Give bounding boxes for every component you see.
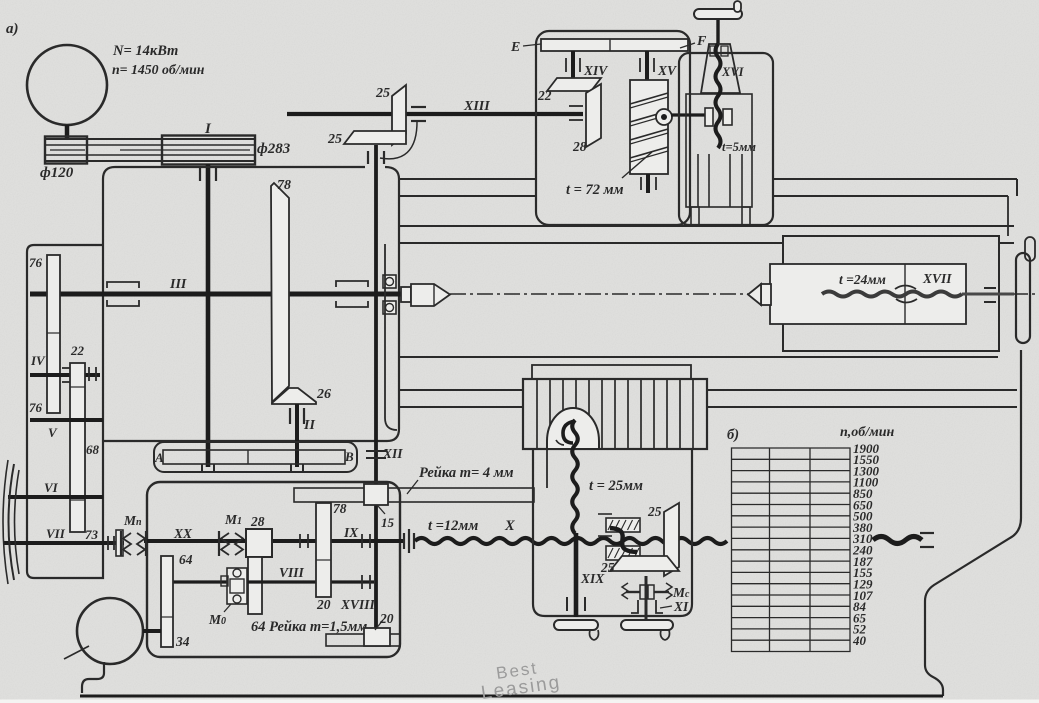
paper edge strip [0, 700, 1039, 703]
svg-text:34: 34 [175, 634, 190, 649]
shaft IV [30, 373, 100, 377]
svg-text:E: E [510, 40, 520, 55]
speed table grid [732, 448, 851, 652]
svg-text:64: 64 [179, 552, 193, 567]
gear block 22/68/73 [70, 363, 85, 532]
svg-text:68: 68 [86, 442, 100, 457]
svg-text:XIV: XIV [583, 63, 608, 78]
svg-text:XII: XII [382, 446, 403, 461]
half nut upper [606, 518, 640, 532]
svg-text:25: 25 [327, 132, 342, 147]
clutch Mp [120, 531, 122, 556]
shaft XI vertical [645, 576, 648, 620]
svg-text:n= 1450 об/мин: n= 1450 об/мин [112, 62, 205, 77]
pulley d120 [45, 137, 87, 164]
svg-text:I: I [204, 121, 212, 137]
gear block 76/76 [47, 255, 60, 413]
bed rail mid1 [399, 225, 1014, 227]
guide stadium right [1025, 237, 1035, 261]
shaft XX / IX horizontal [144, 539, 404, 543]
svg-text:N= 14кВт: N= 14кВт [112, 43, 178, 59]
vertical shaft from bevels down to apron [374, 145, 378, 634]
svg-text:XVII: XVII [922, 271, 952, 286]
svg-text:t = 72 мм: t = 72 мм [566, 182, 624, 198]
tailstock handwheel [1016, 253, 1030, 343]
shaft VII [4, 541, 124, 545]
svg-text:78: 78 [333, 501, 347, 516]
bevel gear 25 upper [392, 85, 406, 145]
svg-text:А: А [154, 450, 164, 465]
belt drive band [45, 139, 255, 161]
svg-text:а): а) [6, 21, 19, 37]
gear block 64/34 [161, 556, 173, 647]
tailstock quill box [770, 264, 966, 324]
bed right outline [925, 350, 1021, 696]
svg-text:28: 28 [250, 514, 265, 529]
pulley d283 [162, 136, 255, 165]
svg-text:XX: XX [173, 526, 193, 541]
svg-text:22: 22 [537, 88, 552, 103]
shaft XIII horizontal [287, 112, 583, 116]
gear block on shaft VIII [248, 557, 262, 614]
worm t=72 [630, 80, 668, 174]
shaft XIV [571, 51, 575, 80]
screw XVI wavy [716, 44, 721, 148]
svg-text:XV: XV [657, 63, 677, 78]
bar E [541, 39, 688, 51]
bevel gear 25 horizontal (apron) [610, 556, 679, 571]
gear pair on screw XVI [705, 108, 713, 126]
XI guide marks [631, 600, 638, 613]
overload clutch M0 [227, 568, 247, 604]
svg-text:26: 26 [316, 387, 331, 402]
norton box housing E [536, 31, 690, 225]
bevel gear 22 [547, 78, 601, 91]
motor M1 (main drive) [27, 45, 107, 125]
feed motor [77, 598, 143, 664]
bed rail low3 [399, 406, 523, 408]
shaft III (spindle) [30, 292, 402, 297]
clutch Mc [640, 585, 646, 599]
speed gearbox left housing [27, 245, 103, 578]
shaft XV [645, 51, 649, 80]
bevel gear 26 [272, 388, 316, 404]
rack pinion foot right [621, 620, 673, 630]
bevel gear 25 lower [344, 131, 406, 144]
gear block 28 [246, 529, 272, 557]
shaft XV lower stub [646, 174, 650, 193]
svg-text:n,об/мин: n,об/мин [840, 425, 895, 440]
svg-text:б): б) [727, 427, 739, 443]
bevel gear 28 [586, 84, 601, 147]
bevel gear 25 vertical (apron) [664, 503, 679, 576]
change gear bracket A-B [154, 442, 357, 472]
shaft XIX [574, 533, 579, 617]
svg-text:28: 28 [572, 139, 587, 154]
svg-text:XI: XI [673, 599, 689, 614]
svg-text:II: II [303, 418, 315, 433]
svg-text:40: 40 [852, 633, 867, 648]
rack pinion foot left [554, 620, 598, 630]
svg-text:ф283: ф283 [257, 141, 291, 157]
coupling of leadscrew X [403, 533, 405, 549]
headstock gearbox housing [103, 167, 399, 441]
svg-text:73: 73 [85, 527, 99, 542]
leadscrew box housing [679, 53, 773, 225]
tailstock center [761, 284, 771, 305]
cross feed screw t=25 wavy [572, 420, 578, 533]
shaft II [295, 404, 299, 467]
svg-text:76: 76 [29, 255, 43, 270]
box legs [691, 207, 699, 225]
spindle bearing upper [383, 275, 396, 288]
carriage nut dome [547, 408, 599, 449]
bottom rack bar [326, 634, 400, 646]
leadscrew X wavy [415, 538, 727, 544]
svg-text:IV: IV [30, 353, 46, 368]
svg-text:XIII: XIII [463, 99, 490, 114]
shaft V [30, 418, 103, 422]
svg-text:В: В [344, 449, 354, 464]
svg-text:X: X [504, 518, 515, 534]
left support bracket arcs [9, 464, 15, 580]
rotation arrows [895, 286, 916, 290]
svg-text:V: V [48, 425, 58, 440]
svg-text:t =12мм: t =12мм [428, 518, 478, 534]
svg-text:VII: VII [46, 526, 66, 541]
svg-text:XVI: XVI [721, 65, 745, 79]
shaft from worm wheel [671, 113, 711, 116]
svg-text:25: 25 [647, 504, 662, 519]
leadscrew X after table [873, 537, 922, 544]
svg-text:25: 25 [375, 86, 390, 101]
bed rail mid2 [399, 242, 783, 244]
svg-text:t =24мм: t =24мм [839, 272, 886, 287]
center line between centers [450, 293, 750, 295]
svg-text:78: 78 [277, 178, 291, 193]
coupling marks on shaft XII [366, 450, 386, 452]
svg-text:25: 25 [600, 560, 615, 575]
machine base bottom [82, 662, 104, 693]
half nut lower [606, 546, 640, 560]
bearing bracket left pair [107, 282, 139, 288]
bed rail low2 [399, 389, 523, 391]
gear 78 on spindle [271, 183, 289, 402]
svg-text:t = 25мм: t = 25мм [589, 478, 643, 494]
svg-text:76: 76 [29, 400, 43, 415]
bed rail top1 [399, 178, 536, 180]
svg-text:20: 20 [379, 611, 394, 626]
svg-text:Рейка m= 4 мм: Рейка m= 4 мм [419, 465, 514, 481]
svg-text:F: F [696, 34, 707, 49]
worm wheel [656, 109, 672, 125]
svg-text:VI: VI [44, 480, 59, 495]
bed rail low1 [399, 356, 998, 358]
handle [716, 20, 719, 44]
svg-text:64 Рейка m=1,5мм: 64 Рейка m=1,5мм [251, 619, 367, 635]
rack slider 15 [364, 484, 388, 505]
bearing bracket right pair [336, 281, 368, 287]
svg-text:ф120: ф120 [40, 165, 74, 181]
gear block 78/20 on shaft IX [316, 503, 331, 597]
rack m=4mm bar [294, 488, 534, 502]
tailstock screw wavy [822, 292, 962, 297]
feed gearbox housing [147, 482, 400, 657]
svg-text:15: 15 [381, 515, 395, 530]
svg-text:20: 20 [316, 597, 331, 612]
shaft VI [8, 495, 103, 499]
shaft I vertical [206, 164, 211, 467]
spindle bearing lower [383, 301, 396, 314]
spindle center (live center) [401, 287, 411, 302]
clutch M1 [218, 531, 220, 556]
svg-text:VIII: VIII [279, 565, 305, 580]
pinion 20 bottom [364, 628, 390, 646]
svg-text:III: III [169, 277, 187, 292]
apron housing [533, 449, 692, 616]
lever quadrant [701, 44, 740, 93]
carriage body hatched [523, 379, 707, 449]
shaft VIII [173, 580, 374, 583]
tailstock outer housing [783, 236, 999, 351]
svg-text:t=5мм: t=5мм [722, 140, 756, 154]
bed left inner vertical [385, 244, 397, 430]
support curve [380, 122, 417, 159]
carriage top plate [532, 365, 691, 379]
bed rail top2 [399, 195, 536, 197]
svg-text:IX: IX [343, 525, 359, 540]
svg-text:22: 22 [70, 343, 85, 358]
svg-text:XVIII: XVIII [340, 597, 376, 612]
